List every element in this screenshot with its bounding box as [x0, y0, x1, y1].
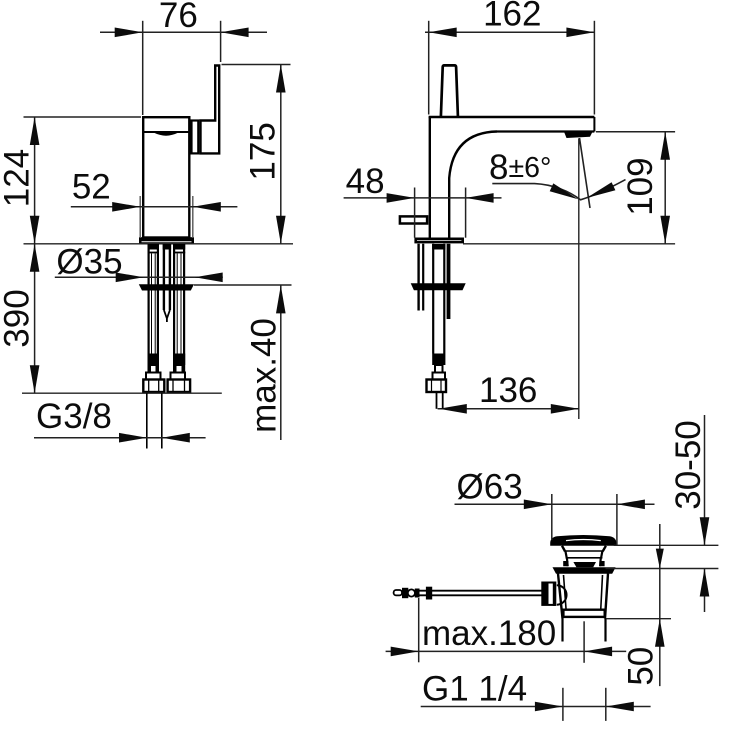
- body left edge: [429, 117, 431, 238]
- stream angle line: [580, 138, 591, 208]
- plug seal: [573, 562, 596, 567]
- under-deck: right stud: [447, 244, 451, 319]
- svg-text:max.180: max.180: [422, 614, 556, 653]
- clevis: [541, 582, 546, 606]
- svg-text:Ø35: Ø35: [56, 242, 122, 281]
- svg-text:162: 162: [483, 0, 541, 34]
- hose nuts: [143, 380, 164, 393]
- dimension G3/8: [34, 437, 206, 439]
- svg-text:Ø63: Ø63: [457, 468, 523, 507]
- dimension 48: [414, 188, 416, 238]
- dimension 30-50: [614, 544, 719, 546]
- svg-text:124: 124: [0, 149, 36, 207]
- plug cap skirt: [562, 546, 606, 551]
- svg-text:48: 48: [346, 162, 385, 201]
- svg-text:G3/8: G3/8: [36, 397, 112, 436]
- svg-text:390: 390: [0, 289, 36, 347]
- dimension G1 1/4: [562, 688, 564, 721]
- hose necks: [150, 365, 157, 373]
- dimension O63: [551, 494, 553, 540]
- dimension 136: [438, 408, 579, 410]
- cartridge cap: [192, 121, 199, 154]
- hose dark bands: [148, 354, 160, 366]
- base plate: [139, 237, 194, 243]
- spout top bar top edge: [429, 116, 595, 118]
- arc arrow right: [587, 182, 616, 198]
- overflow arc: [557, 585, 567, 605]
- svg-text:52: 52: [72, 167, 111, 206]
- lever handle L-shape: [201, 66, 220, 154]
- pop-up rod: [402, 590, 543, 592]
- dimension max.180: [418, 598, 420, 662]
- spout bottom edge: [497, 130, 594, 132]
- drain flange: [553, 567, 616, 574]
- spout inner curve: [449, 132, 497, 238]
- body seam line: [142, 131, 191, 133]
- base plate front: [416, 239, 463, 242]
- svg-text:50: 50: [621, 647, 660, 686]
- tailpipe stubs: [561, 619, 563, 642]
- bottom ring: [563, 610, 604, 617]
- dimension O35: [55, 276, 223, 278]
- stream vertical line: [578, 138, 580, 419]
- right supply hose: [174, 245, 184, 373]
- dimension 390: [34, 244, 36, 393]
- pop-up knob tab: [400, 216, 427, 223]
- svg-text:30-50: 30-50: [669, 420, 708, 510]
- faucet body: [143, 117, 189, 237]
- dimension 175: [222, 64, 291, 66]
- hose nut steps: [146, 373, 161, 380]
- left supply hose: [149, 245, 158, 373]
- G3/8 connector tube: [146, 393, 148, 448]
- mounting flange: [139, 284, 194, 290]
- dimension 124: [24, 116, 142, 118]
- hose end reference line: [22, 392, 222, 394]
- spout right edge: [593, 117, 595, 132]
- dimension 50: [606, 618, 671, 620]
- lever knob: [441, 65, 458, 116]
- deck line right: [463, 243, 675, 245]
- svg-text:175: 175: [243, 122, 282, 180]
- front hose: [432, 244, 445, 250]
- aerator arc: [154, 133, 178, 136]
- drain body: [558, 574, 608, 619]
- plug cap (black dome band): [550, 535, 616, 546]
- arc arrow left: [550, 183, 578, 199]
- aerator outlet: [564, 132, 593, 138]
- front flange: [411, 283, 466, 290]
- mounting stud: [163, 244, 171, 250]
- angle arc: [492, 180, 625, 200]
- dimension max.40: [194, 284, 292, 286]
- under-deck: pull rod: [417, 244, 419, 311]
- dimension 52: [139, 196, 141, 238]
- plug mid section: [565, 551, 602, 558]
- svg-text:136: 136: [479, 371, 537, 410]
- svg-text:8±6°: 8±6°: [489, 148, 551, 187]
- dimension 162: [428, 21, 430, 115]
- svg-text:109: 109: [621, 157, 660, 215]
- dimension 76: [142, 21, 144, 115]
- plug lower section with feet: [567, 558, 601, 566]
- dimension 109: [596, 131, 675, 133]
- svg-text:76: 76: [159, 0, 198, 35]
- svg-text:max.40: max.40: [245, 318, 284, 433]
- deck line: [24, 243, 294, 245]
- svg-text:G1 1/4: G1 1/4: [422, 670, 527, 709]
